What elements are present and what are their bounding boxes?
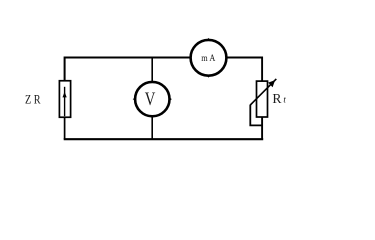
wire: top-right (mA right terminal to corner, down to Rt top) — [226, 58, 262, 82]
wire: voltmeter top lead — [151, 57, 153, 82]
wire: voltmeter bottom lead — [151, 116, 153, 139]
milliammeter mA — [191, 38, 227, 78]
label Rt — [272, 91, 286, 106]
svg-text:Z R: Z R — [25, 93, 41, 107]
svg-text:V: V — [145, 90, 156, 110]
wire: top-left (from ZR top, up and right to mA left terminal) — [65, 58, 191, 81]
wire: left bottom lead (ZR bottom to bottom rail) — [64, 118, 66, 140]
voltmeter V1 — [133, 82, 172, 116]
wire: Rt bottom lead — [261, 117, 263, 140]
resistor ZR (box with internal up arrow) — [59, 81, 70, 118]
label ZR — [25, 93, 41, 107]
svg-text:m A: m A — [201, 54, 215, 64]
svg-text:t: t — [283, 95, 286, 105]
svg-text:R: R — [272, 91, 282, 106]
wire: Rt wiper return (down then right into bottom lead) — [250, 105, 263, 126]
wire: bottom rail — [64, 138, 264, 140]
rheostat Rt (box with diagonal wiper arrow) — [250, 79, 276, 117]
